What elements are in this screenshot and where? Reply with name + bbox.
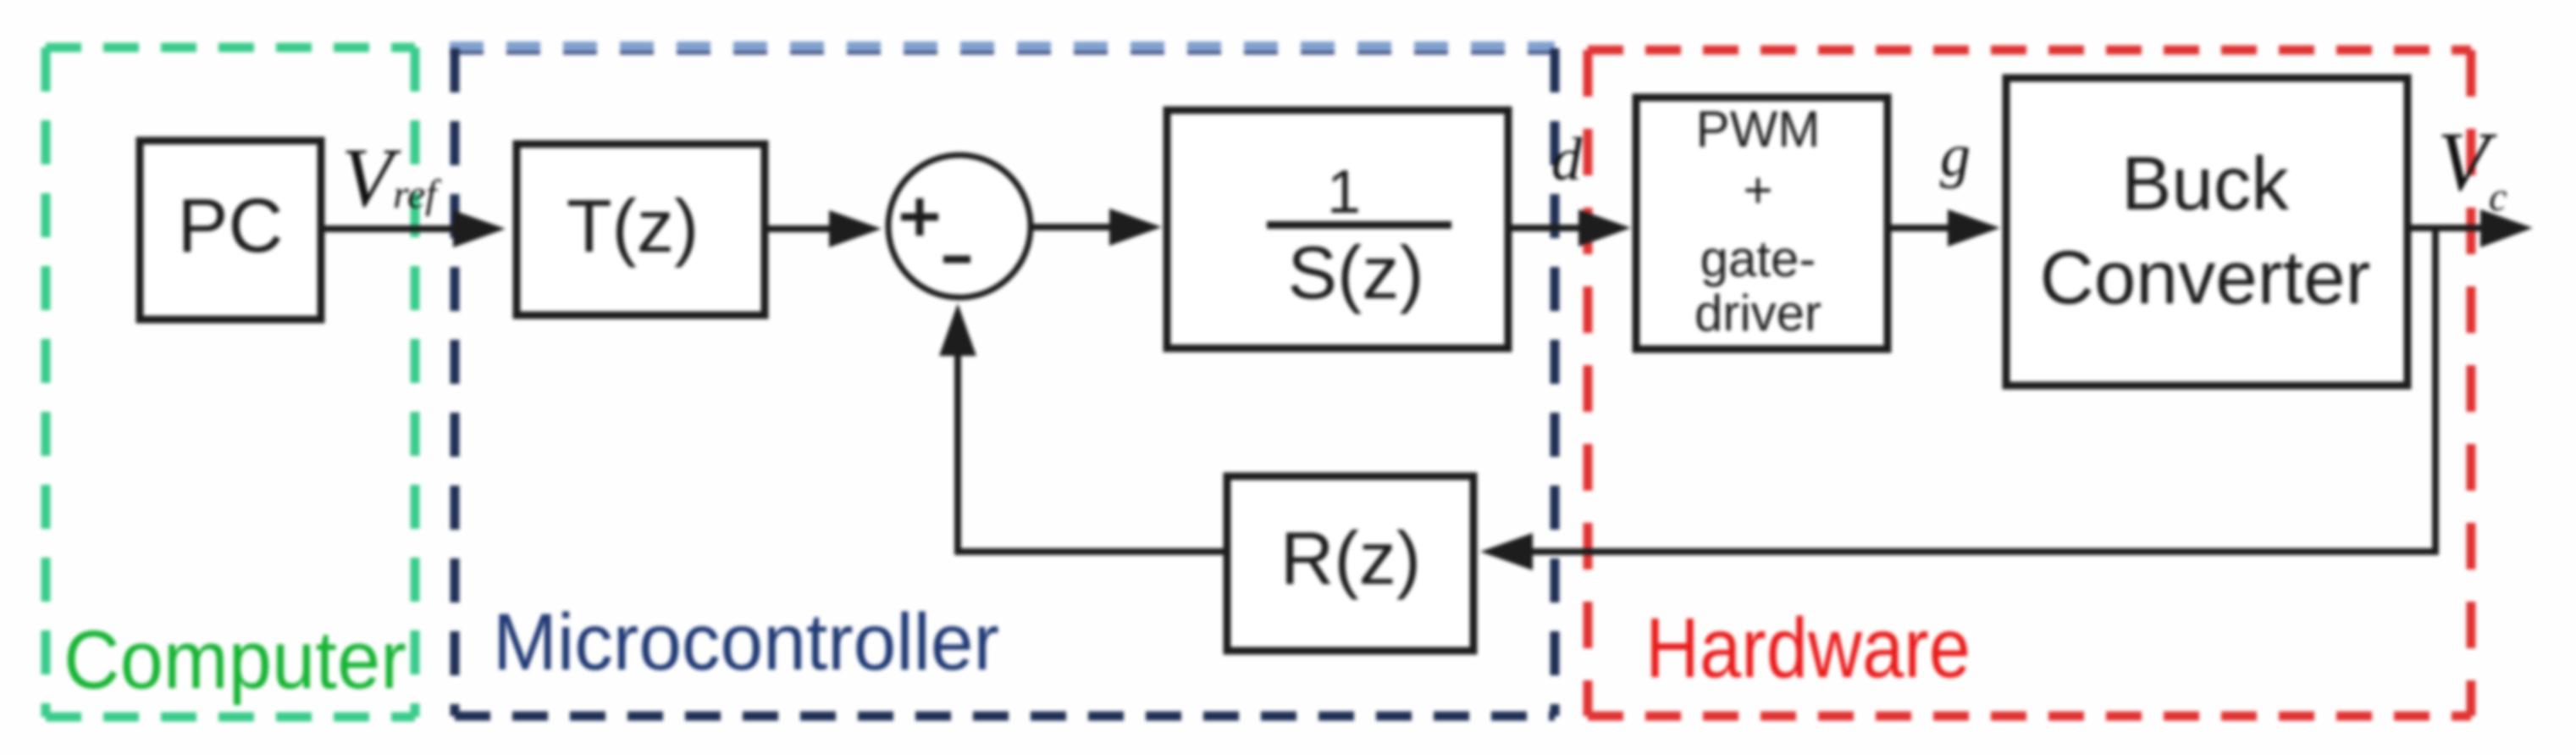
dashed region box: Hardware bottom edge: [1588, 712, 2471, 721]
block T(z): [517, 144, 765, 315]
wire T(z) to summing junction: [765, 225, 834, 232]
dashed region box: Hardware (red) top edge: [1588, 46, 2471, 55]
dashed region box: Microcontroller bottom edge: [455, 712, 1555, 721]
svg-text:T(z): T(z): [567, 184, 699, 268]
svg-text:PC: PC: [177, 184, 283, 269]
svg-text:d: d: [1551, 125, 1583, 193]
wire PWM to Buck Converter: [1888, 225, 1952, 231]
svg-text:Converter: Converter: [2040, 235, 2371, 319]
wire Buck Converter output: [2407, 225, 2485, 231]
dashed region box: Computer bottom edge: [46, 713, 415, 722]
arrowhead into R(z): [1480, 533, 1533, 570]
feedback wire from R(z) left and up to summing junction: [958, 352, 1227, 552]
block Buck Converter: [2006, 78, 2407, 386]
plus sign: [901, 198, 938, 236]
svg-text:Buck: Buck: [2121, 141, 2289, 225]
block PWM + gate-driver: [1636, 97, 1888, 349]
dashed region box: Microcontroller (navy) top edge lighter blue: [450, 42, 1555, 50]
svg-text:R(z): R(z): [1280, 516, 1421, 600]
svg-text:gate-: gate-: [1700, 230, 1816, 287]
wire PC to T(z): [321, 225, 462, 232]
svg-text:driver: driver: [1694, 285, 1821, 341]
svg-text:Microcontroller: Microcontroller: [493, 597, 999, 687]
wire 1/S(z) to PWM: [1508, 225, 1584, 231]
block PC: [140, 141, 321, 319]
svg-text:Computer: Computer: [64, 613, 406, 706]
arrowhead into summing junction: [829, 210, 882, 247]
wire summing junction to 1/S(z): [1031, 224, 1114, 230]
arrowhead into PWM: [1578, 209, 1631, 247]
arrowhead up into summing junction: [939, 303, 976, 356]
arrowhead into 1/S(z): [1109, 208, 1162, 246]
svg-text:Hardware: Hardware: [1645, 601, 1971, 696]
summing junction circle: [888, 155, 1031, 297]
fraction bar: [1267, 221, 1451, 229]
dashed region box: Microcontroller right edge: [1551, 48, 1560, 716]
minus sign: [943, 256, 970, 264]
dashed region box: Computer (green) top edge: [46, 43, 415, 53]
dashed region box: Computer right edge: [411, 47, 420, 717]
arrowhead output Vc: [2480, 209, 2533, 247]
svg-text:1: 1: [1327, 158, 1361, 226]
dashed region box: Microcontroller left edge: [451, 48, 460, 716]
block R(z): [1227, 476, 1473, 651]
svg-text:g: g: [1940, 121, 1971, 189]
feedback wire from output down and left to R(z): [1533, 228, 2435, 552]
svg-text:+: +: [1743, 162, 1772, 219]
dashed region box: Computer left edge: [41, 47, 51, 717]
arrowhead into Buck Converter: [1948, 209, 2000, 247]
block 1/S(z): [1167, 110, 1508, 348]
dashed region box: Hardware left edge: [1584, 50, 1593, 716]
dashed region box: Hardware right edge: [2467, 50, 2476, 716]
arrowhead into T(z): [453, 210, 506, 247]
svg-text:S(z): S(z): [1287, 230, 1423, 314]
svg-text:PWM: PWM: [1696, 101, 1821, 158]
